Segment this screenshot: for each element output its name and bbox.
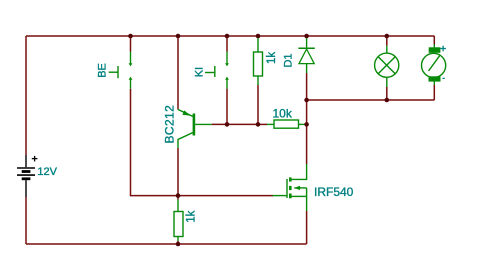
node dot top KI xyxy=(225,34,230,39)
switch BE (pushbutton NO) xyxy=(109,52,133,89)
node dot drain bus lamp xyxy=(385,98,390,103)
wire bottom rail xyxy=(26,243,307,245)
node dot top R1 xyxy=(256,34,261,39)
svg-text:1k: 1k xyxy=(186,210,198,222)
wire left rail upper segment xyxy=(25,36,27,155)
resistor R2 10k xyxy=(267,120,307,128)
svg-text:BE: BE xyxy=(96,63,108,78)
resistor R1 1k (top) xyxy=(254,38,263,85)
node dot base KI xyxy=(225,122,230,127)
wire D1 anode down xyxy=(306,73,308,100)
wire R3 to bottom rail xyxy=(177,241,179,244)
wire BE column lower + run to gate node xyxy=(131,89,179,196)
svg-text:IRF540: IRF540 xyxy=(314,185,354,199)
wire R1 bottom xyxy=(257,85,259,124)
wire BE column upper xyxy=(130,36,132,52)
motor M1 xyxy=(422,36,446,100)
node dot top BE xyxy=(128,34,133,39)
wire base line right part xyxy=(258,123,267,125)
wire drain column xyxy=(306,100,308,124)
node dot top emitter xyxy=(176,34,181,39)
resistor R3 1k (bottom) xyxy=(174,200,183,242)
diode D1 xyxy=(298,38,314,73)
svg-text:10k: 10k xyxy=(273,107,293,121)
motor minus sign xyxy=(443,77,445,79)
wire KI column upper xyxy=(226,36,228,52)
wire source to bottom rail xyxy=(306,211,308,244)
battery plus sign xyxy=(32,156,38,162)
wire collector to gate node xyxy=(177,148,179,200)
svg-text:12V: 12V xyxy=(37,166,57,178)
wire KI column lower xyxy=(226,89,228,125)
wire emitter column xyxy=(177,36,179,110)
svg-text:BC212: BC212 xyxy=(162,105,176,144)
node dot bottom R3 xyxy=(176,242,181,247)
battery BT 12V xyxy=(17,155,35,197)
transistor Q1 BC212 xyxy=(178,110,212,149)
wire load return (drain bus) xyxy=(307,99,435,101)
wire gate line xyxy=(178,195,273,197)
wire left rail lower segment xyxy=(25,197,27,244)
svg-text:KI: KI xyxy=(193,67,205,77)
motor plus sign xyxy=(440,46,446,52)
node dot gate R3 xyxy=(176,193,181,198)
node dot base R1 xyxy=(256,122,261,127)
switch KI (pushbutton NO) xyxy=(205,52,229,89)
node dot drain 10k xyxy=(304,122,309,127)
transistor Q2 IRF540 (MOSFET) xyxy=(273,164,307,211)
svg-text:D1: D1 xyxy=(282,53,294,67)
node dot top D1 xyxy=(304,34,309,39)
lamp LA1 xyxy=(375,36,399,100)
wire top rail xyxy=(26,35,434,37)
node dot drain bus D1 xyxy=(304,98,309,103)
wire base line xyxy=(212,123,258,125)
svg-text:1k: 1k xyxy=(266,52,278,64)
node dot top lamp xyxy=(385,34,390,39)
